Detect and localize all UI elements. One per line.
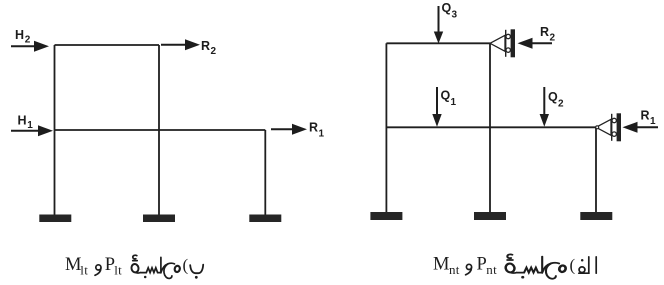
svg-text:2: 2 [25,35,31,46]
svg-text:3: 3 [452,9,458,20]
svg-text:(: ( [570,256,576,275]
svg-text:M: M [433,254,449,274]
svg-text:2: 2 [558,98,564,109]
svg-text:Q: Q [548,90,558,104]
svg-text:Q: Q [441,88,451,102]
svg-text:nt: nt [486,262,497,277]
svg-text:R: R [309,121,318,135]
svg-text:2: 2 [211,46,217,57]
svg-text:Q: Q [442,1,452,15]
svg-text:nt: nt [449,262,460,277]
svg-text:P: P [477,254,487,274]
svg-text:R: R [201,39,210,53]
svg-text:1: 1 [650,116,656,127]
svg-text:(: ( [183,256,189,275]
svg-text:R: R [641,108,650,122]
svg-text:H: H [18,113,27,127]
svg-text:lt: lt [114,263,122,278]
svg-text:lt: lt [80,263,88,278]
svg-text:2: 2 [550,33,556,44]
svg-text:1: 1 [451,97,457,108]
svg-text:1: 1 [319,129,325,140]
svg-text:R: R [540,25,549,39]
svg-text:M: M [65,255,81,275]
svg-text:H: H [15,28,24,42]
svg-text:1: 1 [27,120,33,131]
